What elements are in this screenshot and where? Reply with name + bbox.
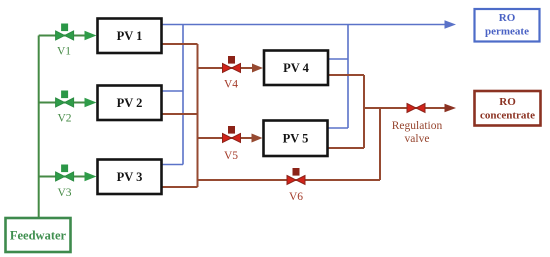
arrow into PV3 [85,172,97,181]
pressure vessel PV2 [98,86,162,121]
wire concentrate right riser [363,75,365,148]
wire permeate right riser [347,25,349,129]
wire PV5 permeate [328,127,348,129]
wire PV5 concentrate [328,147,364,149]
wire permeate main (PV1 to RO permeate) [162,24,445,26]
svg-text:PV 4: PV 4 [283,61,310,75]
valve V6 [287,168,305,203]
arrow into RO concentrate [445,104,457,113]
svg-text:concentrate: concentrate [480,110,535,122]
svg-text:V4: V4 [224,79,238,91]
RO concentrate box [475,91,541,126]
wire concentrate left riser [197,44,199,187]
valve V2 [56,91,74,125]
svg-text:PV 1: PV 1 [117,29,143,43]
wire PV1 concentrate [162,43,198,45]
wire feed to PV2 [39,102,87,104]
valve V1 [56,24,74,58]
svg-text:Feedwater: Feedwater [10,229,67,243]
arrow into PV5 [252,134,263,143]
svg-text:PV 2: PV 2 [117,96,143,110]
wire PV4 concentrate [328,74,364,76]
pressure vessel PV3 [98,160,162,195]
arrow into PV4 [252,64,263,73]
svg-text:V5: V5 [224,150,238,162]
svg-text:V1: V1 [57,46,71,58]
wire feed to PV3 [39,176,87,178]
wire feed vertical (Feedwater riser) [38,36,40,218]
wire PV2 concentrate [162,113,198,115]
wire PV2 permeate [162,90,183,92]
pressure vessel PV1 [98,19,162,54]
svg-text:V2: V2 [57,113,71,125]
svg-text:V6: V6 [289,191,303,203]
wire PV3 concentrate [162,186,198,188]
regulation valve [392,104,443,146]
Feedwater box [6,218,71,252]
valve V3 [56,165,74,200]
svg-text:RO: RO [499,96,516,108]
svg-text:PV 3: PV 3 [117,170,143,184]
RO permeate box [475,9,540,42]
svg-text:permeate: permeate [485,26,529,38]
wire concentrate out [364,107,445,109]
wire feed to PV1 [39,35,87,37]
svg-text:Regulation: Regulation [392,120,443,132]
pressure vessel PV5 [264,121,328,157]
wire to V4 [198,67,254,69]
valve V4 [223,56,241,91]
svg-text:V3: V3 [57,187,71,199]
wire V6 riser [379,108,381,180]
wire PV3 permeate [162,164,183,166]
wire permeate left riser [182,25,184,165]
wire PV4 permeate [328,58,348,60]
valve V5 [223,126,241,162]
pressure vessel PV4 [264,51,328,86]
arrow into RO permeate [445,20,457,29]
svg-text:PV 5: PV 5 [283,132,309,146]
svg-text:valve: valve [405,133,430,145]
svg-text:RO: RO [499,12,516,24]
wire V6 line [198,179,381,181]
arrow into PV2 [85,98,97,107]
wire to V5 [198,137,253,139]
arrow into PV1 [85,31,97,40]
